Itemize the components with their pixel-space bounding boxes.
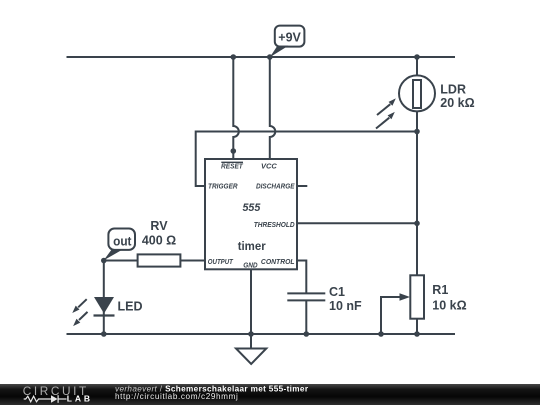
svg-text:TRIGGER: TRIGGER [208, 184, 238, 191]
svg-text:CONTROL: CONTROL [261, 259, 295, 266]
svg-text:10 kΩ: 10 kΩ [432, 299, 466, 313]
svg-text:RV: RV [150, 219, 168, 233]
svg-text:LDR: LDR [440, 82, 466, 96]
svg-text:10 nF: 10 nF [329, 299, 362, 313]
svg-text:out: out [113, 234, 132, 248]
svg-text:R1: R1 [432, 283, 448, 297]
svg-text:DISCHARGE: DISCHARGE [256, 184, 295, 191]
svg-text:http://circuitlab.com/c29hmmj: http://circuitlab.com/c29hmmj [115, 392, 238, 401]
svg-text:20 kΩ: 20 kΩ [440, 96, 474, 110]
svg-text:RESET: RESET [221, 163, 243, 170]
svg-text:GND: GND [243, 262, 257, 269]
svg-text:THRESHOLD: THRESHOLD [254, 222, 295, 229]
svg-text:+9V: +9V [278, 30, 301, 44]
svg-text:timer: timer [238, 239, 266, 253]
svg-text:VCC: VCC [261, 163, 278, 170]
svg-text:400 Ω: 400 Ω [142, 234, 176, 248]
svg-text:LAB: LAB [67, 394, 93, 404]
svg-text:C1: C1 [329, 285, 345, 299]
svg-text:555: 555 [243, 202, 262, 214]
svg-text:LED: LED [118, 300, 143, 314]
svg-text:OUTPUT: OUTPUT [208, 259, 234, 266]
